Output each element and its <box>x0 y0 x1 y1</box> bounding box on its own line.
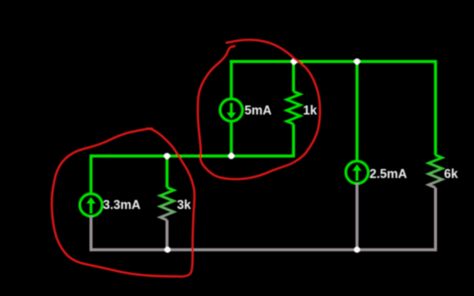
current source I3 2.5mA <box>346 161 368 183</box>
node C (middle rail, 3k top junction) <box>164 153 170 159</box>
annotation: red freehand circle around 3.3mA / 3k loop <box>52 128 195 276</box>
wire: bottom rail (ground) <box>90 248 438 251</box>
node B (top, 2.5mA / top rail junction) <box>354 58 360 64</box>
svg-text:5mA: 5mA <box>245 104 272 118</box>
wire: 2.5mA branch lower lead (ground side) <box>356 183 359 249</box>
current source I2 3.3mA <box>80 194 102 216</box>
wire: middle rail <box>90 155 296 158</box>
resistor R3 6k <box>429 155 443 251</box>
wire: 5mA loop left lower lead <box>230 121 233 157</box>
annotation: red freehand circle around 5mA / 1k loop <box>198 40 320 179</box>
wire: 6k branch upper lead <box>434 60 437 155</box>
node A (top, 1k / top rail junction) <box>291 58 297 64</box>
svg-text:3k: 3k <box>177 198 191 212</box>
node F (bottom rail, 2.5mA bottom junction) <box>354 247 360 253</box>
node E (bottom rail, 3k bottom junction) <box>164 247 170 253</box>
svg-text:6k: 6k <box>444 167 458 181</box>
wire: 2.5mA branch upper lead <box>356 60 359 161</box>
svg-text:2.5mA: 2.5mA <box>370 167 408 181</box>
resistor R1 1k <box>287 60 301 156</box>
svg-text:1k: 1k <box>303 104 317 118</box>
svg-text:3.3mA: 3.3mA <box>103 198 141 212</box>
current source I1 5mA <box>220 99 242 121</box>
wire: top rail <box>230 60 437 63</box>
resistor R2 3k <box>160 156 174 250</box>
node D (middle rail, 5mA loop junction) <box>228 153 234 159</box>
wire: left loop left lower lead (ground side) <box>90 216 93 251</box>
wire: 5mA loop left upper lead <box>230 60 233 99</box>
wire: left loop left upper lead <box>90 155 93 194</box>
